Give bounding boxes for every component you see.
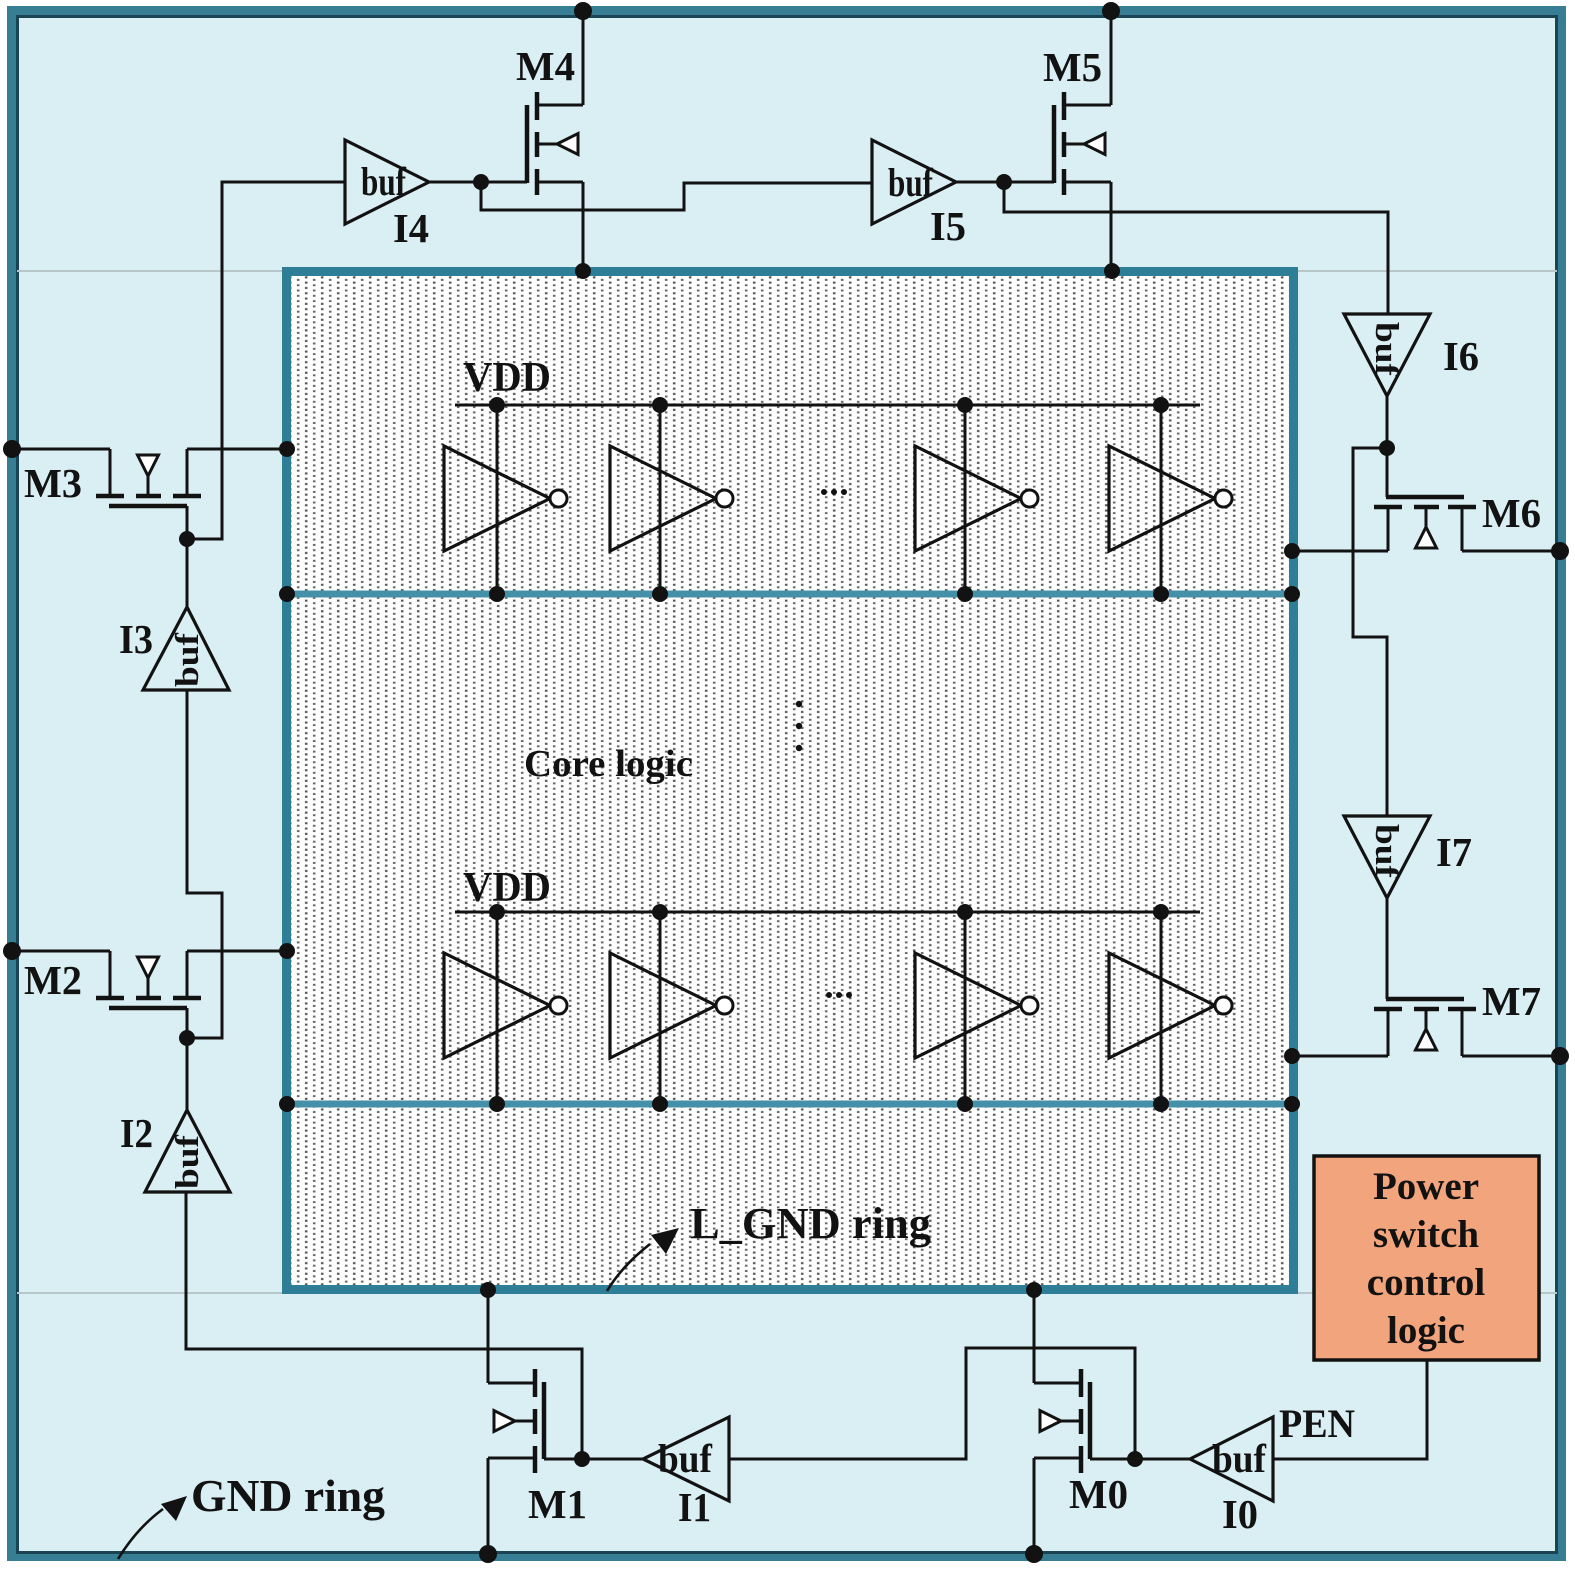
node: rail1 left end: [279, 586, 295, 602]
faint guide line top: [17, 270, 1557, 272]
node on left ring at M3: [3, 440, 21, 458]
svg-text:switch: switch: [1373, 1213, 1479, 1256]
VDD rail row 1: [455, 404, 1200, 407]
wire: I3 output: [186, 539, 189, 607]
buffer I0: [1190, 1417, 1273, 1501]
wire: M7 to right ring: [1462, 1055, 1560, 1058]
svg-text:I3: I3: [119, 616, 153, 662]
buffer I7: [1344, 816, 1430, 898]
svg-text:control: control: [1367, 1261, 1486, 1304]
wire: core box bottom to M0 drain: [1033, 1290, 1036, 1383]
node dots on VDD rail row1: [489, 397, 1169, 413]
node dots on rail2: [489, 1096, 1169, 1112]
svg-text:buf: buf: [170, 1134, 206, 1189]
svg-text:buf: buf: [1368, 322, 1404, 377]
svg-text:M6: M6: [1482, 490, 1541, 536]
buffer I2: [145, 1110, 230, 1192]
node on top ring at M5: [1102, 2, 1120, 20]
wire: I1 output: [582, 1458, 643, 1461]
inverter U2: [659, 405, 662, 594]
node: rail2 right end: [1284, 1096, 1300, 1112]
wire: I6 output: [1386, 396, 1389, 448]
wire: I0 output: [1135, 1458, 1190, 1461]
node dots on rail1: [489, 586, 1169, 602]
faint guide line bottom: [17, 1292, 1557, 1294]
arrow to GND ring: [118, 1496, 187, 1559]
L_GND rail lower: [291, 1101, 1289, 1108]
wire: junction to M4 gate: [481, 181, 527, 184]
node on core box top at M5: [1104, 263, 1120, 279]
wire: I2 junction to I3 input: [187, 690, 222, 1038]
wire: M1 source to bottom ring: [487, 1458, 490, 1554]
transistor M1 (NMOS footer switch): [488, 1369, 544, 1473]
node on left ring at M2: [3, 942, 21, 960]
buffer I6: [1344, 314, 1430, 396]
wire: I4 junction to I5 input: [481, 182, 872, 210]
svg-text:M3: M3: [24, 460, 82, 506]
node: I2 output junction: [179, 1030, 195, 1046]
arrow to L_GND ring: [607, 1228, 679, 1291]
vertical ellipsis center: [796, 701, 802, 751]
node: I5 output junction: [996, 174, 1012, 190]
ellipsis row1: [821, 489, 847, 495]
wire: I3 junction to I4 input: [187, 182, 345, 539]
svg-text:VDD: VDD: [463, 355, 551, 401]
L_GND rail upper: [291, 591, 1289, 598]
node on core box left at M2: [279, 943, 295, 959]
wire: I6 junction zigzag to I7 input: [1353, 448, 1387, 816]
node: I1 output junction: [574, 1451, 590, 1467]
inverter chain row 2: [444, 912, 1232, 1104]
svg-text:PEN: PEN: [1279, 1401, 1355, 1446]
wire: I5 junction to I6 input: [1004, 182, 1388, 314]
svg-text:M5: M5: [1043, 44, 1102, 90]
transistor M3 (NMOS footer switch left): [96, 449, 201, 539]
buffer I3: [143, 607, 229, 690]
svg-text:M1: M1: [528, 1481, 587, 1527]
buffer I1: [643, 1417, 729, 1501]
wire: I0 junction to I1 input: [729, 1348, 1135, 1459]
node: I6 output junction: [1379, 440, 1395, 456]
wire: junction to M0 gate: [1090, 1458, 1135, 1461]
wire: M6 to right ring: [1462, 550, 1560, 553]
wire: core box bottom to M1 drain: [487, 1290, 490, 1383]
VDD rail row 2: [455, 911, 1200, 914]
transistor M0 (NMOS footer switch): [1034, 1369, 1090, 1473]
wire: top ring to M5 drain: [1110, 11, 1113, 105]
wire: M7 to core box right: [1292, 1055, 1388, 1058]
node on bottom ring at M1: [479, 1545, 497, 1563]
core logic block bounded by L_GND ring: [287, 272, 1294, 1290]
Power switch control logic box: [1314, 1156, 1539, 1360]
node dots on VDD rail row2: [489, 904, 1169, 920]
svg-text:M0: M0: [1069, 1471, 1128, 1517]
svg-text:Core logic: Core logic: [524, 743, 693, 785]
svg-text:L_GND ring: L_GND ring: [690, 1199, 931, 1248]
wire: M4 source to core box: [582, 182, 585, 271]
node on bottom ring at M0: [1025, 1545, 1043, 1563]
wire: I7 output to M7 gate: [1386, 898, 1389, 999]
inverter U4: [1160, 405, 1163, 594]
inverter U1: [496, 405, 499, 594]
wire: junction down to M6 gate: [1386, 448, 1389, 497]
node on core box right at M6: [1284, 543, 1300, 559]
transistor M7 (PMOS header switch right): [1374, 999, 1476, 1056]
svg-text:buf: buf: [1368, 824, 1404, 879]
svg-text:GND ring: GND ring: [191, 1470, 385, 1521]
svg-text:logic: logic: [1387, 1309, 1465, 1352]
wire: M0 source to bottom ring: [1033, 1458, 1036, 1554]
wire: I5 output: [956, 181, 1004, 184]
wire: M2 to core box left: [187, 950, 287, 953]
wire: top ring to M4 drain: [582, 11, 585, 105]
inverter U3: [964, 405, 967, 594]
wire: control box to I0 input: [1273, 1360, 1427, 1459]
transistor M6 (PMOS header switch right): [1374, 497, 1476, 551]
svg-text:M4: M4: [516, 43, 575, 89]
inverter U6: [659, 912, 662, 1104]
buffer I4: [345, 140, 429, 224]
inverter U5: [496, 912, 499, 1104]
wire: left ring to M3: [12, 448, 110, 451]
svg-text:buf: buf: [658, 1436, 713, 1481]
node on top ring at M4: [574, 2, 592, 20]
svg-text:I2: I2: [120, 1110, 153, 1156]
node: I3 output junction: [179, 531, 195, 547]
inverter U8: [1160, 912, 1163, 1104]
inverter chain row 1: [444, 405, 1232, 594]
wire: M5 source to core box: [1110, 182, 1113, 271]
node on right ring at M7: [1551, 1047, 1569, 1065]
svg-text:M2: M2: [24, 957, 82, 1003]
buffer I5: [872, 140, 956, 224]
svg-text:Power: Power: [1373, 1165, 1479, 1208]
node: rail1 right end: [1284, 586, 1300, 602]
svg-text:I4: I4: [393, 205, 429, 251]
node on core box bottom at M1: [480, 1282, 496, 1298]
node: rail2 left end: [279, 1096, 295, 1112]
wire: I4 output: [429, 181, 481, 184]
svg-text:I5: I5: [930, 203, 966, 249]
svg-text:I6: I6: [1443, 333, 1479, 379]
svg-text:I1: I1: [678, 1484, 711, 1530]
node on core box right at M7: [1284, 1048, 1300, 1064]
wire: M3 to core box left: [187, 448, 287, 451]
node on core box left at M3: [279, 441, 295, 457]
svg-text:buf: buf: [888, 160, 934, 205]
transistor M5 (PMOS header switch): [1054, 92, 1111, 195]
svg-text:buf: buf: [361, 159, 407, 204]
node: I0 output junction: [1127, 1451, 1143, 1467]
wire: M6 to core box right: [1292, 550, 1388, 553]
svg-text:buf: buf: [1212, 1436, 1267, 1481]
inverter U7: [964, 912, 967, 1104]
wire: I1 junction to I2 input: [186, 1192, 582, 1459]
wire: left ring to M2: [12, 950, 110, 953]
svg-text:M7: M7: [1482, 978, 1541, 1024]
node on core box top at M4: [575, 263, 591, 279]
wire: I2 output: [186, 1038, 189, 1110]
wire: junction to M1 gate: [544, 1458, 582, 1461]
node: I4 output junction: [473, 174, 489, 190]
node on right ring at M6: [1551, 542, 1569, 560]
transistor M2 (NMOS footer switch left): [96, 951, 201, 1038]
node on core box bottom at M0: [1026, 1282, 1042, 1298]
svg-text:I7: I7: [1436, 829, 1472, 875]
transistor M4 (PMOS header switch): [527, 92, 583, 195]
svg-text:I0: I0: [1222, 1491, 1258, 1537]
svg-text:buf: buf: [170, 632, 206, 687]
ellipsis row2: [826, 992, 852, 998]
wire: junction to M5 gate: [1004, 181, 1054, 184]
svg-text:VDD: VDD: [463, 865, 551, 911]
